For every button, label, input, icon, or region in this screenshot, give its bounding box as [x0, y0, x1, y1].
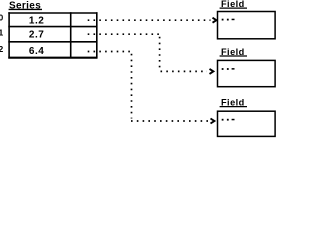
svg-text:0: 0 [0, 13, 3, 23]
svg-text:2.7: 2.7 [29, 30, 44, 41]
svg-text:2: 2 [0, 44, 3, 54]
svg-text:1.2: 1.2 [29, 15, 44, 26]
svg-text:1: 1 [0, 28, 3, 38]
svg-text:6.4: 6.4 [29, 46, 44, 57]
